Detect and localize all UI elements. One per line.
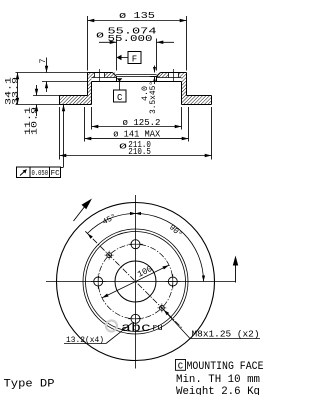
bore chamfer left: [113, 73, 117, 77]
front view circles: [57, 203, 215, 361]
dim 11.1/10.9 (disc thickness): [33, 95, 60, 97]
svg-text:ø 125.2: ø 125.2: [123, 117, 161, 128]
M8 hole tick marks: [105, 254, 114, 256]
mounting face note: [176, 360, 186, 371]
dim 4.0/3.5x45 chamfer: [150, 76, 159, 78]
dim dia55.074/55.000: [116, 39, 118, 71]
bolt holes (13.2 x4): [131, 240, 140, 249]
svg-text:10.9: 10.9: [30, 107, 40, 135]
hat wall inner right: [181, 82, 183, 105]
bolt hole edges in flange: [94, 73, 96, 78]
ring bottom left: [60, 104, 92, 106]
svg-text:Type DP: Type DP: [4, 379, 55, 391]
brake disc section: flange top left: [88, 72, 113, 74]
datum F flag: [117, 55, 122, 61]
bore far side lines: [117, 74, 157, 76]
svg-text:F: F: [132, 55, 137, 65]
M8 service holes (x2): [107, 253, 112, 258]
svg-text:ø 135: ø 135: [119, 10, 155, 21]
bolt hole tick marks: [91, 281, 105, 283]
dim dia135: [87, 16, 89, 71]
bolt circle dia 100 dimension: [102, 265, 169, 298]
svg-text:Min. TH 10 mm: Min. TH 10 mm: [176, 374, 260, 386]
svg-text:FC: FC: [51, 170, 60, 178]
flange top right: [161, 72, 187, 74]
dim dia211.0/210.5: [59, 107, 61, 160]
svg-text:C: C: [117, 93, 123, 103]
flange underside left: [92, 77, 117, 79]
bolt hole centerline ticks: [99, 69, 101, 82]
90 degree arc: [136, 214, 204, 282]
dim 7 (flange thickness): [16, 72, 88, 74]
svg-text:C: C: [178, 362, 184, 372]
dim dia125.2: [91, 107, 93, 130]
svg-text:ø: ø: [119, 141, 127, 152]
dim 34.1/33.9 (total height): [16, 104, 60, 106]
runout FCF box: [63, 105, 65, 168]
svg-text:0.050: 0.050: [32, 170, 49, 178]
svg-text:3.5x45°: 3.5x45°: [148, 81, 158, 114]
svg-text:33.9: 33.9: [10, 77, 20, 105]
hatch: flange band and walls and ring: [60, 73, 212, 105]
ring right edge: [211, 96, 213, 105]
ring bottom right: [182, 104, 212, 106]
flange underside right: [157, 77, 182, 79]
datum C flag: [117, 78, 123, 81]
svg-text:M8x1.25 (x2): M8x1.25 (x2): [192, 329, 260, 340]
bore edge right: [156, 77, 158, 82]
hat wall outer right: [186, 73, 188, 96]
mounting face line: [92, 81, 182, 83]
bore edge left: [116, 77, 118, 82]
svg-text:55.000: 55.000: [108, 33, 153, 44]
hat wall outer left: [87, 73, 89, 96]
svg-text:MOUNTING FACE: MOUNTING FACE: [187, 361, 264, 373]
ring left edge: [59, 96, 61, 105]
hat wall inner left: [91, 82, 93, 105]
ring top right: [187, 95, 212, 97]
svg-text:Weight 2.6 Kg: Weight 2.6 Kg: [176, 386, 260, 395]
svg-text:ru: ru: [152, 323, 163, 333]
rotation direction arrow: [74, 206, 86, 222]
svg-text:210.5: 210.5: [128, 146, 151, 157]
front view centerlines: [135, 195, 137, 369]
view direction arrow (right): [235, 262, 237, 283]
svg-text:abc: abc: [121, 321, 151, 335]
45 degree arc: [87, 213, 135, 233]
svg-text:ø 141 MAX: ø 141 MAX: [113, 129, 160, 140]
ring top left: [60, 95, 88, 97]
svg-text:7: 7: [38, 58, 48, 63]
bore chamfer right: [157, 73, 161, 77]
svg-text:ø: ø: [96, 30, 104, 41]
watermark: [106, 321, 117, 332]
dim dia141 MAX: [84, 107, 86, 142]
arc arrowheads: [135, 212, 141, 215]
